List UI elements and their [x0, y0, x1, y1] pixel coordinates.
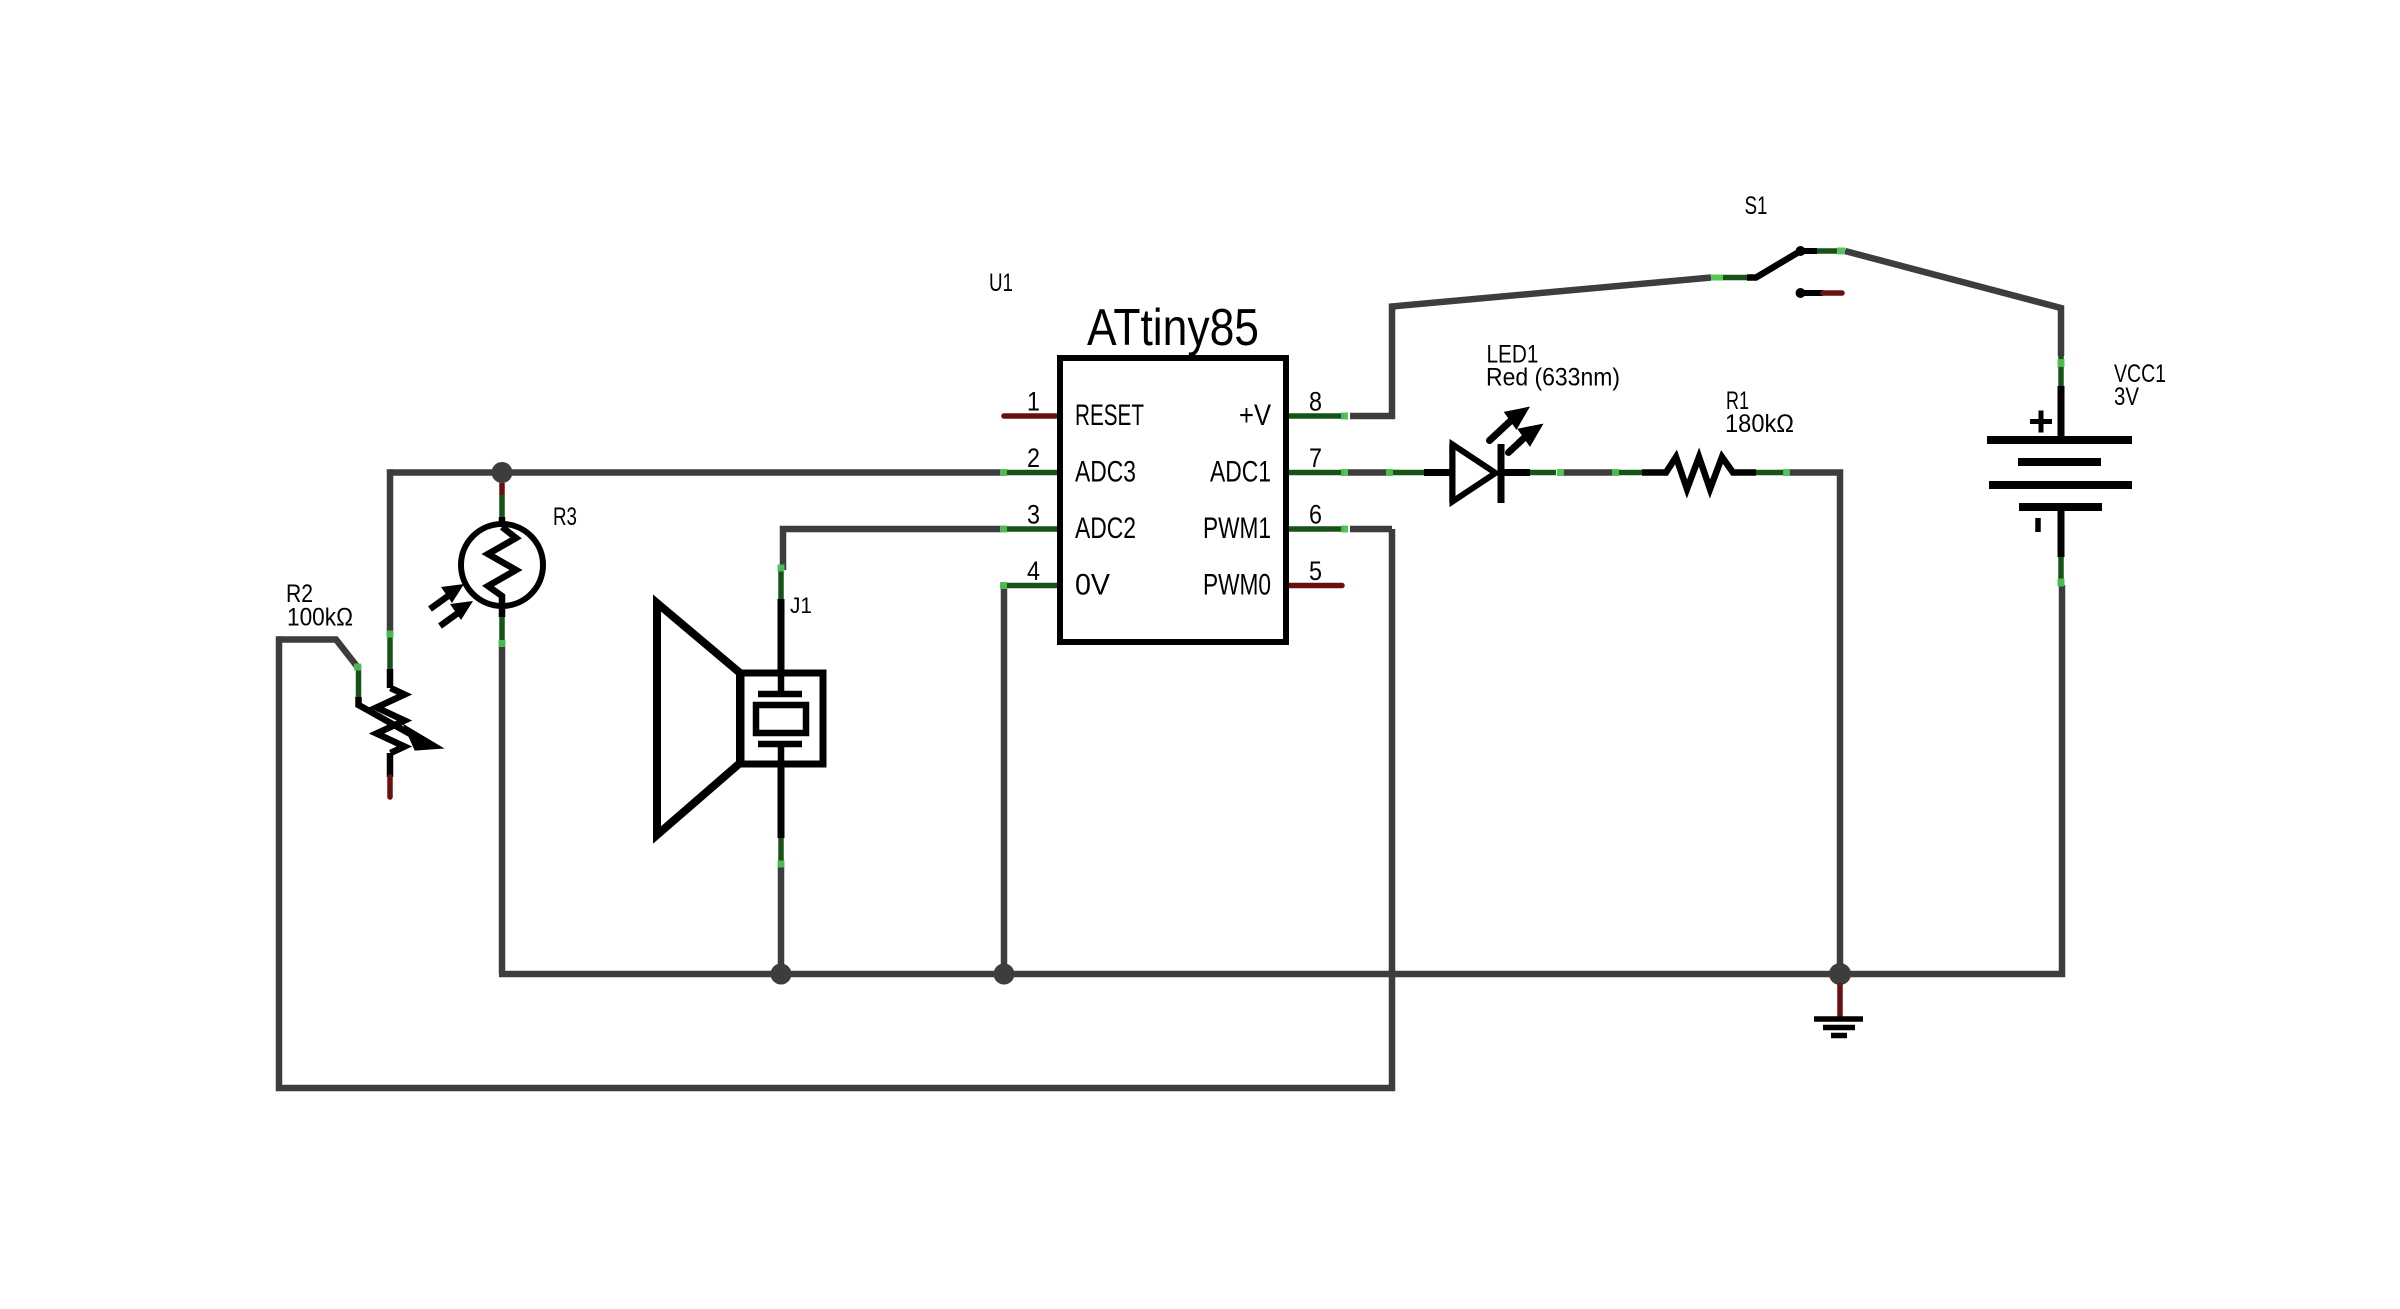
- svg-text:2: 2: [1027, 443, 1040, 473]
- wire R1 to ground junction: [1789, 469, 1840, 974]
- wire ground bottom run: [499, 585, 2062, 974]
- node junction J1/ground run: [771, 964, 792, 985]
- svg-text:RESET: RESET: [1075, 399, 1144, 432]
- node junction R1/ground run: [1829, 963, 1851, 985]
- node junction R3/ADC3: [492, 462, 513, 483]
- wire 0V vertical: [1002, 583, 1004, 974]
- wire J1 bottom vertical: [778, 865, 785, 974]
- svg-text:S1: S1: [1745, 192, 1768, 220]
- node terminal nubs (bright green): [354, 248, 2065, 868]
- svg-text:100kΩ: 100kΩ: [287, 604, 353, 632]
- svg-text:Red (633nm): Red (633nm): [1486, 364, 1620, 392]
- piezo speaker J1: [657, 570, 823, 866]
- wire R3 bottom vertical: [499, 644, 506, 974]
- IC U1 pin 2 stub: [1002, 470, 1061, 476]
- svg-text:3: 3: [1027, 500, 1040, 530]
- wire R2 top vertical: [387, 469, 394, 634]
- svg-text:ADC2: ADC2: [1075, 512, 1136, 545]
- wire LED to R1: [1563, 469, 1612, 476]
- svg-text:4: 4: [1027, 556, 1040, 586]
- svg-text:R3: R3: [553, 503, 577, 531]
- resistor R1: [1612, 457, 1784, 489]
- svg-text:180kΩ: 180kΩ: [1725, 410, 1794, 438]
- svg-text:ATtiny85: ATtiny85: [1087, 299, 1259, 357]
- IC U1 pin 6 stub: [1284, 526, 1344, 532]
- IC U1 pin 1 RESET stub: [1004, 413, 1061, 419]
- wire ADC1 stub to LED: [1348, 469, 1392, 476]
- switch S1: [1711, 246, 1842, 298]
- battery VCC1: [1987, 356, 2132, 586]
- wire net ADC3: pin2 to R2/R3: [390, 469, 1002, 476]
- wire ADC2 to J1: [783, 529, 1002, 570]
- svg-text:7: 7: [1309, 443, 1322, 473]
- wire R2 wiper lead: [279, 640, 358, 668]
- svg-text:J1: J1: [790, 593, 812, 618]
- resistor R2 (rheostat): [359, 632, 439, 797]
- op-amp/IC U1 body: [1060, 358, 1286, 642]
- svg-text:ADC3: ADC3: [1075, 456, 1136, 489]
- photoresistor R3: [430, 483, 543, 645]
- svg-text:PWM0: PWM0: [1203, 569, 1271, 602]
- wire +V pin8 to switch: [1350, 278, 1711, 417]
- svg-text:PWM1: PWM1: [1203, 512, 1271, 545]
- wire left loop (R2 wiper to PWM1): [279, 529, 1392, 1088]
- wire switch to battery top: [1845, 251, 2061, 356]
- ground: [1814, 983, 1863, 1036]
- svg-text:ADC1: ADC1: [1210, 456, 1271, 489]
- wire PWM1 stub-to-corner: [1350, 526, 1392, 533]
- LED LED1: [1390, 408, 1556, 503]
- IC U1 pin 3 stub: [1002, 526, 1061, 532]
- node junction 0V/ground run: [994, 964, 1015, 985]
- svg-text:5: 5: [1309, 556, 1322, 586]
- svg-text:+V: +V: [1239, 399, 1271, 432]
- IC U1 pin 5 PWM0 stub: [1284, 583, 1342, 589]
- svg-text:3V: 3V: [2114, 383, 2139, 411]
- svg-text:U1: U1: [989, 269, 1013, 297]
- IC U1 pin 7 stub: [1284, 470, 1344, 476]
- IC U1 pin 4 stub: [1002, 583, 1061, 589]
- svg-text:8: 8: [1309, 387, 1322, 417]
- svg-text:1: 1: [1027, 387, 1040, 417]
- IC U1 pin 8 stub: [1284, 413, 1344, 419]
- svg-text:0V: 0V: [1075, 569, 1110, 602]
- svg-text:6: 6: [1309, 500, 1322, 530]
